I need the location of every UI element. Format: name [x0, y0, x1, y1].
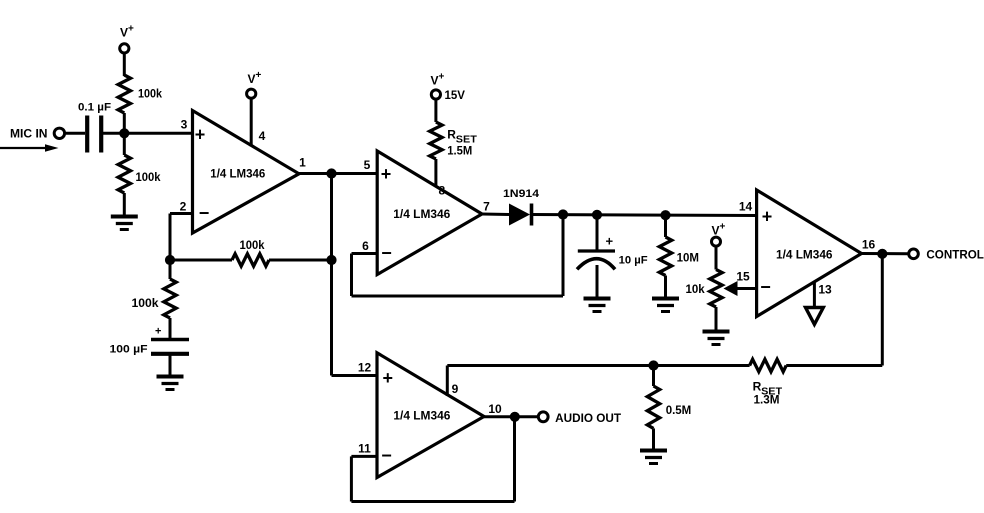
svg-text:100k: 100k — [132, 298, 160, 310]
svg-text:7: 7 — [483, 200, 490, 214]
svg-text:1/4 LM346: 1/4 LM346 — [393, 207, 450, 221]
svg-text:+: + — [720, 222, 726, 233]
svg-text:15V: 15V — [445, 90, 466, 102]
svg-text:2: 2 — [180, 200, 187, 214]
svg-text:10: 10 — [488, 402, 502, 416]
svg-text:+: + — [256, 70, 262, 81]
svg-text:100k: 100k — [136, 172, 162, 184]
svg-text:AUDIO OUT: AUDIO OUT — [555, 413, 621, 425]
svg-text:10 µF: 10 µF — [619, 254, 648, 266]
svg-text:100k: 100k — [138, 89, 163, 101]
svg-text:100k: 100k — [240, 240, 266, 252]
svg-text:11: 11 — [358, 441, 371, 455]
svg-text:+: + — [155, 326, 161, 338]
svg-text:−: − — [381, 243, 392, 263]
svg-text:100 µF: 100 µF — [110, 344, 148, 356]
svg-text:MIC IN: MIC IN — [10, 129, 48, 141]
svg-text:−: − — [199, 203, 210, 223]
svg-text:1/4 LM346: 1/4 LM346 — [776, 248, 833, 262]
svg-text:1.3M: 1.3M — [754, 395, 780, 407]
svg-text:1/4 LM346: 1/4 LM346 — [210, 167, 265, 181]
svg-text:+: + — [762, 207, 773, 227]
svg-text:+: + — [383, 368, 394, 388]
svg-text:+: + — [381, 164, 392, 184]
svg-text:1: 1 — [299, 156, 306, 170]
svg-text:12: 12 — [358, 360, 372, 374]
svg-text:4: 4 — [259, 129, 266, 143]
svg-text:+: + — [195, 125, 206, 145]
svg-text:−: − — [760, 277, 771, 297]
svg-text:8: 8 — [438, 184, 445, 198]
svg-text:3: 3 — [181, 117, 188, 131]
svg-text:1/4 LM346: 1/4 LM346 — [393, 409, 450, 423]
svg-text:0.1 µF: 0.1 µF — [78, 102, 111, 114]
svg-text:V: V — [431, 74, 439, 88]
svg-text:0.5M: 0.5M — [666, 405, 692, 417]
svg-text:1N914: 1N914 — [503, 188, 540, 200]
svg-text:V: V — [712, 224, 720, 238]
svg-text:V: V — [248, 72, 256, 86]
svg-text:SET: SET — [456, 134, 478, 146]
svg-text:1.5M: 1.5M — [447, 145, 472, 157]
svg-text:V: V — [120, 26, 128, 40]
svg-text:9: 9 — [452, 382, 459, 396]
svg-text:+: + — [606, 234, 614, 249]
svg-text:15: 15 — [736, 270, 750, 284]
svg-text:10M: 10M — [677, 253, 699, 265]
svg-text:+: + — [128, 24, 134, 35]
svg-text:10k: 10k — [686, 284, 706, 296]
svg-text:6: 6 — [362, 239, 369, 253]
svg-text:13: 13 — [818, 283, 832, 297]
svg-text:+: + — [439, 72, 445, 83]
svg-text:16: 16 — [862, 238, 876, 252]
svg-text:14: 14 — [739, 200, 753, 214]
svg-text:CONTROL: CONTROL — [926, 249, 984, 261]
svg-text:−: − — [381, 445, 392, 465]
svg-text:5: 5 — [364, 158, 371, 172]
